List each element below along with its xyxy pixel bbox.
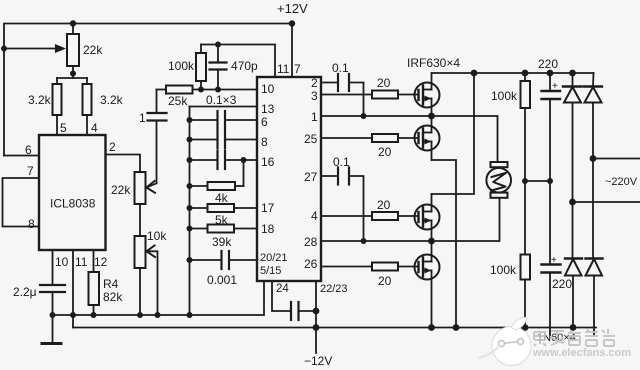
node: 10k wiper on rail: [155, 312, 161, 318]
wire: pin 22/23 to -12V: [315, 281, 317, 353]
svg-text:6: 6: [25, 143, 32, 157]
svg-text:2: 2: [311, 76, 318, 90]
wire: 22k wiper arm: [1, 44, 66, 53]
svg-text:10k: 10k: [147, 229, 167, 243]
wire: Q3 drain to +rail riser: [432, 73, 475, 194]
svg-text:7: 7: [27, 164, 34, 178]
svg-text:22/23: 22/23: [320, 283, 348, 295]
potentiometer 22k (left): [67, 24, 103, 79]
resistor 4k: [187, 182, 244, 205]
diode D3 (lower): [565, 259, 582, 331]
svg-text:5: 5: [60, 121, 67, 135]
watermark logo: [478, 317, 531, 365]
svg-text:4: 4: [91, 121, 98, 135]
svg-text:20: 20: [378, 145, 392, 159]
svg-text:82k: 82k: [103, 290, 123, 304]
node: 22k pot top junction: [70, 20, 76, 26]
capacitor 0.1 (gate top pair): [332, 61, 364, 116]
svg-text:25k: 25k: [168, 94, 188, 108]
svg-text:11: 11: [75, 255, 88, 269]
node: cap to pin28 row: [361, 238, 367, 244]
svg-text:IRF630×4: IRF630×4: [407, 56, 460, 70]
svg-text:0.001: 0.001: [207, 273, 237, 287]
wire: 100k to 220 link: [525, 180, 550, 182]
watermark text: [532, 329, 631, 359]
diode D1 (upper): [563, 70, 582, 259]
wire: pin 28 row to motor bottom / M3-M4 junction: [321, 199, 500, 242]
resistor 100k (left): [168, 45, 206, 93]
transistor Q1 IRF630: [415, 73, 440, 116]
svg-text:18: 18: [261, 222, 275, 236]
svg-text:0.1: 0.1: [333, 155, 350, 169]
wire: pin 11 down to -12V rail: [72, 250, 74, 328]
svg-text:4: 4: [311, 209, 318, 223]
svg-text:8: 8: [28, 217, 35, 231]
resistor R4 82k: [89, 250, 124, 318]
svg-text:25: 25: [304, 132, 318, 146]
svg-text:~220V: ~220V: [605, 176, 638, 188]
wire: bus top to pin 13: [190, 106, 258, 108]
svg-text:4k: 4k: [215, 191, 229, 205]
wire: -12V lower rail: [73, 327, 596, 329]
resistor 5k: [187, 204, 258, 227]
wire: +12V top rail: [4, 24, 292, 156]
svg-text:1: 1: [139, 111, 146, 125]
svg-text:+12V: +12V: [277, 1, 308, 16]
svg-text:22k: 22k: [83, 43, 103, 57]
svg-text:20: 20: [377, 76, 391, 90]
wire: 0.1x3 left bus: [189, 107, 191, 316]
svg-text:0.1×3: 0.1×3: [206, 93, 237, 107]
IC U2 control chip: [257, 77, 321, 281]
capacitor 0.001: [187, 251, 258, 287]
wire: AC line 1: [593, 158, 640, 160]
wire: pin 2 stub: [321, 82, 338, 84]
svg-text:100k: 100k: [168, 59, 195, 73]
capacitor 470p: [210, 42, 259, 93]
capacitor 0.1 (c) to pin 16: [187, 151, 258, 169]
resistor 3.2k (left): [28, 78, 62, 135]
svg-text:100k: 100k: [490, 263, 517, 277]
svg-text:www.elecfans.com: www.elecfans.com: [532, 347, 631, 359]
svg-text:+: +: [552, 81, 558, 92]
wire: ground rail: [53, 281, 265, 315]
svg-text:6: 6: [261, 115, 268, 129]
svg-text:2.2μ: 2.2μ: [13, 285, 37, 299]
svg-text:12: 12: [94, 255, 108, 269]
node: +12V junction: [289, 20, 295, 26]
svg-text:20: 20: [378, 274, 392, 288]
resistor 25k: [157, 86, 258, 109]
svg-text:7: 7: [294, 62, 301, 76]
svg-text:ICL8038: ICL8038: [50, 197, 96, 211]
resistor 39k: [187, 225, 258, 250]
resistor 20 (gate Q4): [321, 263, 419, 289]
svg-text:17: 17: [261, 201, 275, 215]
wire: 10k wiper down to ground rail: [147, 251, 158, 315]
svg-text:20/21: 20/21: [260, 252, 288, 264]
wire: +12V to pin 7 stub: [291, 24, 293, 78]
node: AC tap on D1 string: [569, 199, 576, 206]
op-amp U1 ICL8038: [39, 135, 106, 250]
svg-text:220: 220: [538, 57, 558, 71]
wire: pin 2 to pots: [106, 155, 141, 173]
node: AC tap on D2 string: [590, 155, 597, 162]
wire: pin 7 to pin 8 loop: [3, 178, 40, 227]
node: Q4 source on rail: [428, 324, 435, 331]
svg-text:28: 28: [304, 235, 318, 249]
wire: + top rail: [432, 72, 594, 74]
svg-text:13: 13: [261, 102, 275, 116]
resistor 3.2k (right): [83, 78, 124, 135]
diode D4 (lower): [586, 259, 603, 336]
wire: AC line 2: [573, 201, 640, 203]
wire: pin 1 row to motor top / M1-M2 junction: [321, 116, 498, 163]
resistor 20 (gate Q3): [321, 198, 419, 220]
potentiometer 10k: [135, 229, 168, 268]
svg-text:R4: R4: [103, 277, 119, 291]
wire: pot interconnect: [139, 204, 141, 236]
svg-text:220: 220: [552, 277, 572, 291]
capacitor 1: [139, 90, 167, 184]
node: pin11 on ground rail: [70, 312, 76, 318]
wire: 4k riser to pin16 row: [243, 160, 245, 186]
transistor Q4 IRF630: [415, 241, 440, 328]
resistor 20 (gate Q1): [321, 76, 419, 99]
node: Q2 source on rail: [453, 324, 460, 331]
svg-text:3.2k: 3.2k: [100, 93, 124, 107]
transistor Q2 IRF630: [415, 116, 440, 160]
wire: 100k/470p top to pin 11: [201, 45, 275, 78]
capacitor 0.1 (gate bottom pair): [333, 155, 364, 241]
node: -12V rail junction: [313, 324, 320, 331]
svg-text:−12V: −12V: [304, 354, 332, 368]
resistor 100k (lower right): [490, 255, 530, 331]
svg-text:1: 1: [311, 110, 318, 124]
capacitor 220 (upper, electrolytic): [538, 57, 560, 265]
svg-text:20: 20: [377, 198, 391, 212]
diode D2 (upper): [584, 73, 602, 259]
svg-text:3: 3: [311, 89, 318, 103]
svg-text:39k: 39k: [212, 235, 232, 249]
svg-text:11: 11: [277, 62, 290, 76]
capacitor 220 (lower, electrolytic): [542, 255, 573, 335]
capacitor C24 (pin 24): [291, 302, 319, 320]
svg-text:10: 10: [261, 82, 275, 96]
motor M: [486, 162, 511, 198]
ground: [42, 342, 61, 345]
node: 10k bottom on rail: [137, 312, 143, 318]
wire: Q2 source to -12V rail: [432, 160, 457, 328]
node: M1 source / M2 drain: [428, 113, 435, 120]
transistor Q3 IRF630: [415, 194, 440, 241]
svg-text:24: 24: [276, 283, 289, 295]
node: riser on top rail: [471, 70, 478, 77]
svg-text:8: 8: [261, 135, 268, 149]
svg-text:16: 16: [261, 155, 275, 169]
capacitor 0.1 (a) to pin 6: [187, 111, 258, 129]
wire: split bar to 3.2k pair: [57, 77, 87, 79]
svg-text:27: 27: [304, 170, 318, 184]
wire: pin 24 stub: [272, 281, 291, 311]
resistor 100k (upper right): [491, 70, 530, 255]
svg-text:22k: 22k: [111, 183, 131, 197]
wire: pin 27 stub: [321, 175, 338, 177]
capacitor 0.1 (b) to pin 8: [187, 131, 258, 149]
svg-text:5/15: 5/15: [260, 265, 281, 277]
potentiometer 22k (right): [111, 172, 157, 204]
node: bus on ground rail: [187, 312, 193, 318]
svg-text:2: 2: [109, 140, 116, 154]
svg-text:0.1: 0.1: [332, 61, 349, 75]
svg-text:10: 10: [55, 255, 69, 269]
node: cap to pin1 row: [361, 113, 367, 119]
wire: pin 6: [4, 155, 39, 157]
svg-text:100k: 100k: [491, 89, 518, 103]
resistor 20 (gate Q2): [321, 134, 419, 159]
wire: 10k bottom to ground rail: [139, 268, 141, 315]
svg-text:+: +: [551, 255, 557, 266]
capacitor 2.2u on pin 10: [13, 250, 65, 344]
svg-text:470p: 470p: [231, 59, 258, 73]
svg-text:26: 26: [304, 257, 318, 271]
svg-text:3.2k: 3.2k: [28, 93, 52, 107]
node: M3 source / M4 drain: [428, 238, 435, 245]
